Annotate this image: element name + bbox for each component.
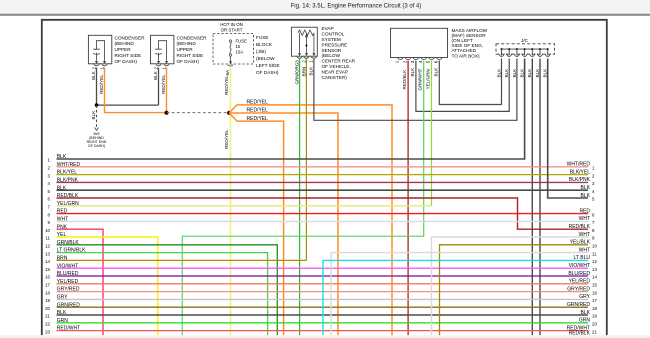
svg-text:BLK/YEL: BLK/YEL [57, 170, 78, 176]
fuse F 15A symbol [229, 40, 231, 42]
svg-text:BLU/RED: BLU/RED [568, 271, 590, 277]
svg-text:19: 19 [45, 298, 50, 303]
wire right row 10 YEL/BLK [440, 245, 589, 335]
svg-text:GRN/RED: GRN/RED [567, 302, 590, 308]
svg-text:UPPER: UPPER [115, 47, 132, 52]
svg-text:(BELOW: (BELOW [322, 53, 341, 58]
wire C2 RED/YEL drop [166, 68, 168, 113]
wire right row 12 LT BLU [323, 260, 588, 335]
wire EVAP BLK to J/C [314, 59, 517, 121]
svg-text:16: 16 [592, 290, 597, 295]
svg-text:CONDENSER: CONDENSER [177, 35, 208, 40]
wire left row 13 LT GRN/BLK [57, 253, 268, 336]
svg-text:BLK: BLK [410, 67, 415, 77]
svg-text:RED/BLK: RED/BLK [57, 193, 79, 199]
svg-text:WHT/RED: WHT/RED [57, 162, 81, 168]
fuse block J/B dashed box [213, 34, 254, 65]
EVAP sensor resistor symbol [298, 30, 314, 35]
svg-text:BLK: BLK [527, 68, 532, 78]
wire left row 12 GRN/BLK [57, 245, 278, 335]
J/C pin hooks [499, 54, 505, 57]
svg-text:YEL/GRN: YEL/GRN [426, 69, 431, 89]
svg-text:(J/B): (J/B) [256, 49, 266, 54]
wire right row 9 WHT [432, 237, 589, 335]
wire left row 16 BLU/RED [57, 275, 589, 277]
svg-text:BLK: BLK [57, 154, 67, 160]
svg-text:(BELOW: (BELOW [256, 56, 275, 61]
svg-text:BLK: BLK [504, 68, 509, 78]
wire left row 15 VIO/WHT [57, 267, 589, 269]
title bar divider [0, 14, 650, 16]
wire RED/YEL branch middle [229, 113, 338, 335]
svg-text:BLK: BLK [309, 66, 314, 76]
wire J/C pin6 BLK vertical [539, 59, 541, 336]
svg-text:15A: 15A [236, 50, 244, 55]
svg-text:BRN: BRN [301, 67, 306, 77]
svg-text:20: 20 [592, 322, 597, 327]
wire RED/YEL branch bottom [229, 113, 283, 335]
EVAP pin marks [298, 53, 301, 56]
svg-text:19: 19 [592, 314, 597, 319]
svg-text:YEL/GRN: YEL/GRN [57, 201, 79, 207]
capacitor symbol C2 [155, 49, 162, 54]
svg-text:14: 14 [592, 275, 597, 280]
svg-text:11: 11 [592, 251, 597, 256]
wire left row 1 BLK [57, 59, 525, 160]
svg-text:GRY/RED: GRY/RED [567, 286, 590, 292]
wire right row 11 WHT [331, 253, 588, 336]
svg-text:RED/BLK: RED/BLK [569, 224, 591, 230]
svg-text:RED: RED [57, 209, 68, 215]
svg-text:4: 4 [418, 60, 423, 63]
svg-text:5: 5 [426, 60, 431, 63]
svg-text:LEFT SIDE: LEFT SIDE [256, 63, 280, 68]
svg-text:BLK: BLK [581, 193, 591, 199]
svg-text:BLK: BLK [153, 70, 158, 80]
svg-text:16: 16 [45, 275, 50, 280]
svg-text:RED/YEL: RED/YEL [99, 74, 104, 94]
svg-text:BLK: BLK [57, 310, 67, 316]
status strip [0, 335, 650, 338]
wire left row 4 BLK/PNK [57, 181, 589, 183]
svg-text:10: 10 [592, 244, 597, 249]
wire left row 10 PNK [57, 229, 104, 335]
svg-text:21: 21 [45, 314, 50, 319]
svg-text:GRN/BLK: GRN/BLK [57, 240, 80, 246]
svg-text:BLK/PNK: BLK/PNK [57, 178, 79, 184]
fuse pin mark [230, 57, 232, 64]
svg-text:1: 1 [161, 67, 166, 70]
wire left row 5 BLK [57, 189, 589, 191]
wire left row 20 GRN/RED [57, 306, 589, 308]
condenser C1 (behind upper right side of dash) [88, 35, 111, 64]
wire left row 23 RED/WHT [57, 330, 589, 332]
svg-text:BLK: BLK [433, 67, 438, 77]
svg-text:GRY/RED: GRY/RED [57, 287, 80, 293]
wire C1 BLK drop [96, 68, 98, 106]
wire C2 BLK drop [158, 68, 160, 106]
svg-text:BLK: BLK [91, 110, 96, 120]
svg-text:21: 21 [592, 329, 597, 334]
wire fuse RED/YEL vertical [230, 68, 232, 336]
svg-text:OF DASH): OF DASH) [256, 70, 279, 75]
svg-text:NEAR EVAP: NEAR EVAP [322, 69, 348, 74]
node RED/YEL junction B [227, 111, 231, 115]
wire left row 18 GRY/RED [57, 291, 589, 293]
svg-text:FUSE: FUSE [236, 39, 248, 44]
svg-text:GRY: GRY [57, 295, 68, 301]
svg-text:LT BLU: LT BLU [574, 255, 591, 261]
svg-text:SYSTEM: SYSTEM [322, 37, 341, 42]
wire EVAP GRN/ORG vertical [299, 59, 301, 335]
svg-text:VIO/WHT: VIO/WHT [57, 263, 78, 269]
capacitor symbol C1 [93, 49, 100, 54]
svg-text:14: 14 [45, 259, 50, 264]
svg-text:WHT: WHT [579, 247, 590, 253]
svg-text:6: 6 [434, 60, 439, 63]
svg-text:BLK: BLK [543, 68, 548, 78]
svg-text:GRN: GRN [57, 318, 69, 324]
wire left row 3 BLK/YEL [57, 174, 589, 176]
svg-text:CONTROL: CONTROL [322, 32, 345, 37]
title bar [0, 0, 650, 13]
svg-text:OF VEHICLE,: OF VEHICLE, [322, 64, 351, 69]
svg-text:CENTER REAR: CENTER REAR [322, 59, 356, 64]
svg-text:OF DASH): OF DASH) [115, 59, 138, 64]
svg-text:RIGHT SIDE: RIGHT SIDE [115, 53, 142, 58]
wire EVAP BRN vertical [305, 59, 307, 260]
svg-text:OR START: OR START [221, 28, 243, 33]
svg-text:BLK: BLK [520, 68, 525, 78]
wire MAF YEL/GRN vertical [431, 61, 433, 206]
svg-text:BLK: BLK [91, 70, 96, 80]
svg-text:15: 15 [236, 44, 241, 49]
svg-text:TO AIR BOX): TO AIR BOX) [452, 53, 480, 58]
J/C internal bus [502, 48, 548, 50]
wire dashed RED/YEL link [167, 112, 230, 114]
wire J/C pin5 BLK vertical [531, 59, 533, 336]
MAF pin hooks [398, 58, 403, 60]
svg-text:FUSE: FUSE [256, 35, 269, 40]
wire RED/YEL branch top [229, 105, 392, 335]
svg-text:15: 15 [45, 267, 50, 272]
condenser C1 pin 2 mark [95, 61, 98, 64]
svg-text:YEL/BLK: YEL/BLK [570, 240, 591, 246]
wire left row 21 BLK [57, 314, 589, 316]
wire MAF BLK pin3 to J/C [416, 59, 509, 112]
condenser C2 (behind upper right side of dash) [151, 35, 174, 64]
svg-text:RED/WHT: RED/WHT [57, 326, 80, 332]
wire BLK dashed to M/9 [96, 105, 98, 127]
svg-text:1: 1 [309, 60, 314, 63]
svg-text:15: 15 [592, 283, 597, 288]
svg-text:BLK/PNK: BLK/PNK [569, 177, 591, 183]
EVAP sensor wiper [300, 33, 314, 56]
svg-text:13: 13 [45, 251, 50, 256]
svg-text:YEL/RED: YEL/RED [57, 279, 79, 285]
svg-text:GRY: GRY [579, 294, 590, 300]
svg-text:1: 1 [395, 60, 400, 63]
svg-text:12: 12 [45, 244, 50, 249]
wire left row 17 YEL/RED [57, 283, 589, 285]
svg-text:PRESSURE: PRESSURE [322, 42, 348, 47]
wire left row 19 GRY [57, 298, 589, 300]
svg-text:GRN/WHT: GRN/WHT [418, 68, 423, 90]
svg-text:LT GRN/BLK: LT GRN/BLK [57, 248, 86, 254]
svg-text:17: 17 [592, 298, 597, 303]
svg-text:11: 11 [45, 236, 50, 241]
svg-text:9A: 9A [225, 69, 230, 76]
svg-text:BLK: BLK [535, 68, 540, 78]
svg-text:CONDENSER: CONDENSER [115, 35, 146, 40]
svg-text:WHT: WHT [57, 217, 68, 223]
wire left row 9 WHT [57, 220, 589, 222]
svg-text:2: 2 [301, 60, 306, 63]
condenser C2 pin 2 mark [157, 61, 160, 64]
svg-text:12: 12 [592, 259, 597, 264]
svg-text:EVAP: EVAP [322, 26, 334, 31]
svg-text:22: 22 [45, 322, 50, 327]
J/C bus dots [501, 48, 503, 50]
wire left row 6 RED/BLK [57, 198, 589, 229]
svg-text:GRN/RED: GRN/RED [57, 302, 80, 308]
wire left row 22 GRN [57, 322, 589, 324]
wire MAF RED/BLK vertical [407, 61, 409, 336]
svg-text:18: 18 [45, 290, 50, 295]
svg-text:BLOCK: BLOCK [256, 42, 273, 47]
svg-text:RED/YEL: RED/YEL [161, 74, 166, 94]
svg-text:YEL: YEL [57, 232, 67, 238]
svg-text:BLK: BLK [57, 185, 67, 191]
svg-text:YEL/RED: YEL/RED [569, 279, 591, 285]
svg-text:(BEHIND: (BEHIND [115, 41, 135, 46]
mass airflow MAF sensor box [391, 28, 448, 57]
svg-text:3: 3 [410, 60, 415, 63]
wire left row 2 WHT/RED [57, 166, 589, 168]
svg-text:RIGHT SIDE: RIGHT SIDE [177, 53, 204, 58]
svg-text:23: 23 [45, 329, 50, 334]
svg-text:BRN: BRN [57, 256, 68, 262]
svg-text:2: 2 [402, 60, 407, 63]
svg-text:RED/BLK: RED/BLK [402, 69, 407, 90]
svg-text:WHT: WHT [579, 232, 590, 238]
EVAP control system pressure sensor box [291, 27, 317, 56]
svg-text:RED/YEL: RED/YEL [247, 100, 269, 106]
svg-text:BLK: BLK [496, 68, 501, 78]
svg-text:WHT/RED: WHT/RED [567, 162, 591, 168]
node BLK condensers junction [95, 103, 99, 107]
svg-text:OF DASH): OF DASH) [177, 59, 200, 64]
svg-text:2: 2 [91, 67, 96, 70]
node RED/YEL junction A [165, 111, 169, 115]
svg-text:VIO/WHT: VIO/WHT [569, 263, 590, 269]
svg-text:13: 13 [592, 267, 597, 272]
wire C1 RED/YEL drop [105, 68, 167, 113]
junction connector J/C dashed box [496, 44, 555, 54]
svg-text:BLU/RED: BLU/RED [57, 271, 79, 277]
svg-text:(BEHIND: (BEHIND [177, 41, 197, 46]
svg-text:WHT: WHT [579, 216, 590, 222]
svg-text:RED/YEL: RED/YEL [224, 129, 229, 149]
svg-text:RED/YEL: RED/YEL [247, 107, 269, 113]
wire left row 7 YEL/GRN [57, 205, 432, 207]
condenser C1 internal wiring [97, 41, 105, 61]
svg-text:18: 18 [592, 306, 597, 311]
condenser C2 internal wiring [159, 41, 167, 61]
svg-text:CANISTER): CANISTER) [322, 75, 348, 80]
svg-text:HOT IN ON: HOT IN ON [220, 22, 243, 27]
wire left row 8 RED [57, 213, 589, 215]
wire MAF BLK pin6 to J/C [439, 59, 501, 105]
svg-text:BLK: BLK [581, 310, 591, 316]
svg-text:J/C: J/C [521, 38, 529, 43]
svg-text:Fig. 14: 3.5L, Engine Performa: Fig. 14: 3.5L, Engine Performance Circui… [291, 4, 422, 10]
svg-text:RED: RED [579, 208, 590, 214]
svg-text:GRN/ORG: GRN/ORG [295, 62, 300, 84]
svg-text:20: 20 [45, 306, 50, 311]
svg-text:RED/YEL: RED/YEL [224, 75, 229, 95]
condenser C1 pin 1 mark [103, 61, 106, 64]
svg-text:17: 17 [45, 283, 50, 288]
svg-text:BLK: BLK [581, 185, 591, 191]
svg-text:3: 3 [295, 60, 300, 63]
svg-text:UPPER: UPPER [177, 47, 194, 52]
J/C pin stubs [501, 49, 503, 55]
svg-text:PNK: PNK [57, 224, 68, 230]
svg-text:RED/YEL: RED/YEL [247, 116, 269, 122]
wire C1-C2 BLK link [97, 104, 159, 106]
svg-text:SENSOR: SENSOR [322, 48, 342, 53]
svg-text:BLK/YEL: BLK/YEL [570, 169, 591, 175]
condenser C2 pin 1 mark [165, 61, 168, 64]
svg-text:10: 10 [45, 228, 50, 233]
svg-text:1: 1 [99, 67, 104, 70]
svg-text:BLK: BLK [512, 68, 517, 78]
svg-text:2: 2 [153, 67, 158, 70]
svg-text:OF DASH): OF DASH) [88, 144, 105, 148]
wire left row 11 YEL [57, 237, 158, 335]
wire right row 5 BLK from J/C [548, 59, 588, 199]
wire left row 14 BRN [57, 259, 307, 261]
wire MAF GRN/WHT path [182, 61, 423, 336]
ground M/9 arrow [95, 128, 99, 131]
svg-text:GRN: GRN [579, 318, 591, 324]
